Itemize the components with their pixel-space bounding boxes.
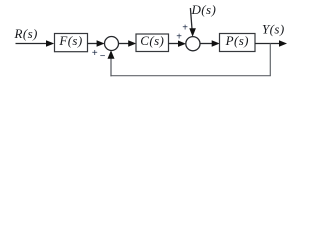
svg-text:P(s): P(s) — [225, 33, 249, 48]
wire input R(s) to F(s) — [16, 43, 47, 45]
svg-text:D(s): D(s) — [191, 2, 217, 17]
svg-text:Y(s): Y(s) — [262, 22, 285, 37]
block C1 C(s) — [136, 34, 169, 52]
wire S1 to C(s) — [119, 43, 130, 45]
wire output P(s) to Y(s) — [255, 43, 279, 45]
wire D(s) disturbance input down into S2 — [190, 8, 192, 29]
svg-text:C(s): C(s) — [140, 33, 164, 48]
wire C(s) to summing junction S2 — [169, 43, 179, 45]
svg-text:−: − — [100, 51, 106, 62]
block P1 P(s) — [220, 34, 256, 52]
wire feedback tap down from output node — [269, 44, 271, 76]
summing junction S2 — [186, 37, 200, 51]
svg-text:+: + — [182, 23, 188, 34]
wire feedback riser up into S1 — [110, 58, 112, 77]
wire F(s) to summing junction S1 — [88, 43, 98, 45]
wire feedback bottom rail — [110, 75, 271, 77]
summing junction S1 — [105, 37, 119, 51]
svg-text:+: + — [92, 48, 98, 59]
svg-text:F(s): F(s) — [58, 33, 82, 48]
wire S2 to P(s) — [200, 43, 213, 45]
block F1 F(s) — [55, 34, 88, 52]
svg-text:R(s): R(s) — [14, 26, 38, 41]
